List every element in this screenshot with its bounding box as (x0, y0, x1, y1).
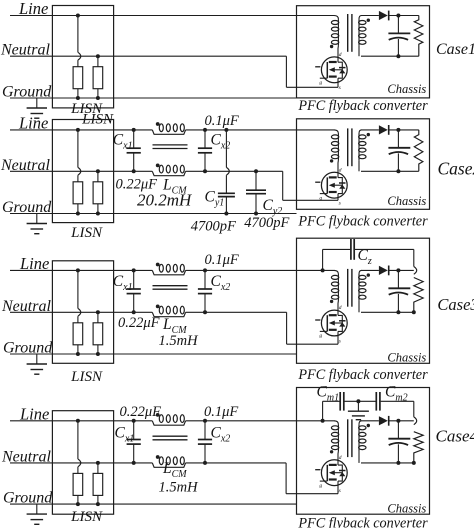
svg-text:d: d (339, 167, 342, 173)
svg-text:Cx1: Cx1 (113, 273, 133, 293)
svg-text:g: g (319, 80, 322, 86)
transformer T primary winding (334, 130, 338, 134)
mosfet body diode (339, 185, 345, 189)
svg-text:Neutral: Neutral (1, 298, 51, 315)
LISN internal wire Line tap (76, 268, 80, 272)
transformer secondary polarity dot (367, 424, 370, 427)
ground symbol (case 3) (36, 354, 38, 364)
transformer T primary winding (334, 270, 338, 274)
mosfet body diode (339, 472, 345, 476)
node output+ (396, 419, 400, 423)
wire crossover hop (Cm2 branch over output rail) (414, 417, 417, 425)
svg-text:Chassis: Chassis (387, 194, 426, 208)
resistor Rload (414, 432, 423, 463)
wire MOSFET source to return (337, 78, 339, 87)
node output- (396, 54, 400, 58)
LCM core (153, 435, 188, 437)
svg-text:PFC flyback converter: PFC flyback converter (297, 98, 428, 114)
transformer core (347, 128, 349, 166)
wire Neutral (case 2) (10, 170, 152, 172)
svg-text:Chassis: Chassis (387, 82, 426, 96)
wire Neutral (case 4) (10, 462, 152, 464)
transformer T secondary winding (359, 130, 362, 134)
capacitor Cx2 (203, 419, 207, 423)
wire output bottom rail (361, 462, 414, 464)
wire Cz left branch (322, 249, 324, 270)
svg-text:PFC flyback converter: PFC flyback converter (297, 515, 428, 528)
ground symbol (case 2) (36, 214, 38, 224)
case 2: PFC flyback converter box (297, 119, 430, 210)
svg-text:Cx1: Cx1 (113, 132, 133, 152)
resistor R1 (LISN) (73, 182, 83, 204)
wire MOSFET source to return (337, 331, 339, 344)
gate drive dash (315, 66, 320, 68)
mosfet gate (326, 177, 328, 193)
capacitor Cx2 (203, 128, 207, 132)
capacitor Cout output electrolytic (397, 130, 399, 148)
wire Cm1-Cm2 link (345, 400, 377, 402)
LISN internal wire Line tap (76, 14, 80, 18)
svg-text:Ground: Ground (2, 199, 52, 216)
svg-text:s: s (339, 338, 341, 344)
resistor Rload (414, 130, 423, 171)
wire Cm2 right branch (381, 400, 414, 402)
capacitor Cx2 (203, 268, 207, 272)
transformer T primary winding (334, 421, 338, 425)
transformer secondary polarity dot (367, 273, 370, 276)
capacitor Cm1 (339, 392, 341, 411)
node Cz primary tap (321, 268, 325, 272)
wire Ground (case 3) (10, 353, 297, 355)
node output- (396, 169, 400, 173)
wire MOSFET source to return (337, 481, 339, 494)
wire Line (case 1) (10, 15, 335, 17)
wire output top rail (389, 269, 414, 271)
common-mode choke LCM bottom winding (152, 312, 185, 316)
capacitor Cm2 (375, 392, 377, 411)
transistor Q MOSFET switch (321, 172, 347, 198)
svg-text:g: g (319, 195, 322, 201)
wire output bottom rail (361, 55, 419, 57)
capacitor Cy2 (254, 169, 258, 173)
node output+ (396, 268, 400, 272)
common-mode choke LCM top winding (152, 421, 185, 425)
wire output top rail (389, 15, 419, 17)
wire Line (case 2) (10, 129, 152, 131)
capacitor Cout output electrolytic (397, 16, 399, 34)
node Cm junction (356, 399, 360, 403)
wire secondary top rail (361, 420, 379, 422)
svg-text:Cy1: Cy1 (205, 189, 225, 209)
resistor R1 (LISN) (73, 323, 83, 345)
svg-text:Case2: Case2 (438, 158, 474, 178)
transformer secondary polarity dot (367, 19, 370, 22)
LCM bottom winding polarity dot (156, 164, 160, 168)
LISN network case 3 (52, 261, 113, 364)
wire Ground (case 1) (10, 97, 297, 99)
wire output top rail (389, 129, 419, 131)
svg-text:s: s (339, 201, 341, 207)
svg-text:Neutral: Neutral (0, 157, 50, 174)
LCM top winding polarity dot (156, 122, 160, 126)
resistor R2 (LISN) (96, 310, 100, 314)
wire output top rail (389, 420, 414, 422)
transformer T secondary winding (359, 421, 362, 425)
transformer primary polarity dot (330, 450, 333, 453)
svg-text:Line: Line (19, 254, 49, 273)
wire Line (case 3) (10, 269, 152, 271)
transformer T secondary winding (359, 270, 362, 274)
resistor R1 (LISN) (73, 473, 83, 495)
LCM core (153, 144, 188, 146)
LISN network case 2 (52, 120, 113, 223)
svg-text:Chassis: Chassis (387, 502, 426, 516)
svg-text:1.5mH: 1.5mH (159, 480, 200, 496)
transformer core (347, 14, 349, 52)
transformer primary polarity dot (330, 300, 333, 303)
svg-text:0.1μF: 0.1μF (205, 252, 239, 268)
svg-text:g: g (319, 483, 322, 489)
svg-text:0.22μF: 0.22μF (120, 404, 162, 420)
resistor R1 (LISN) (73, 67, 83, 89)
svg-text:20.2mH: 20.2mH (137, 190, 193, 209)
svg-text:1.5mH: 1.5mH (159, 333, 200, 349)
svg-text:Cx1: Cx1 (115, 425, 135, 445)
wire Cm1 left branch (322, 401, 324, 421)
ground symbol (case 4) (36, 504, 38, 514)
common-mode choke LCM bottom winding (152, 171, 185, 175)
mosfet internal structure (338, 178, 342, 194)
svg-text:Cx2: Cx2 (211, 273, 231, 293)
wire secondary top rail (361, 269, 379, 271)
transistor Q MOSFET switch (321, 460, 347, 486)
capacitor Cx1 (132, 268, 136, 272)
wire secondary top rail (361, 129, 379, 131)
LISN network case 4 (52, 411, 113, 515)
transistor Q MOSFET switch (321, 57, 347, 83)
node Rload bottom junction (412, 461, 416, 465)
diode D output rectifier (379, 11, 388, 20)
svg-text:d: d (339, 455, 342, 461)
capacitor Cout output electrolytic (397, 421, 399, 439)
svg-text:Ground: Ground (2, 84, 52, 101)
transformer secondary polarity dot (367, 133, 370, 136)
svg-text:0.1μF: 0.1μF (204, 404, 238, 420)
LCM bottom winding polarity dot (156, 455, 160, 459)
transformer primary polarity dot (330, 159, 333, 162)
svg-text:Cm1: Cm1 (317, 384, 340, 404)
wire secondary top rail (361, 15, 379, 17)
diode D output rectifier (379, 125, 388, 134)
mosfet internal structure (338, 465, 342, 481)
LCM top winding polarity dot (156, 413, 160, 417)
svg-text:Case3: Case3 (437, 295, 474, 314)
LCM bottom winding polarity dot (156, 305, 160, 309)
resistor Rload (414, 278, 423, 313)
gate drive dash (315, 469, 320, 471)
svg-text:g: g (319, 333, 322, 339)
capacitor Cz (350, 239, 352, 260)
wire crossover hop (Cz branch over output rail) (414, 267, 417, 275)
diode D output rectifier (379, 266, 388, 275)
svg-text:LISN: LISN (70, 225, 103, 241)
svg-text:LISN: LISN (70, 369, 103, 385)
svg-text:Case1: Case1 (436, 41, 474, 58)
resistor R2 (LISN) (96, 169, 100, 173)
resistor R2 (LISN) (96, 54, 100, 58)
svg-text:d: d (339, 52, 342, 58)
resistor R2 (LISN) (96, 461, 100, 465)
node output+ (396, 128, 400, 132)
svg-text:Line: Line (19, 404, 49, 423)
node output- (396, 310, 400, 314)
LISN internal wire Line tap (76, 419, 80, 423)
case 3: PFC flyback converter box (297, 238, 430, 363)
node output- (396, 461, 400, 465)
resistor Rload (414, 16, 423, 57)
wire Ground (case 4) (10, 503, 297, 505)
wire Neutral (case 1) (10, 55, 286, 57)
svg-text:s: s (339, 488, 341, 494)
svg-text:Chassis: Chassis (387, 351, 426, 365)
svg-text:Line: Line (18, 113, 48, 132)
node Rload bottom junction (412, 310, 416, 314)
chassis ground symbol (Cm junction) (357, 401, 359, 411)
wire MOSFET source to return (337, 194, 339, 201)
wire Neutral feed down (case 2) (282, 171, 284, 200)
ground symbol (case 1) (36, 98, 38, 108)
LISN network case 1 (52, 6, 113, 108)
svg-text:Line: Line (18, 0, 48, 18)
svg-text:0.1μF: 0.1μF (205, 113, 239, 129)
wire Neutral feed down (case 1) (285, 56, 287, 87)
gate drive dash (315, 319, 320, 321)
svg-text:4700pF: 4700pF (244, 215, 289, 231)
wire Neutral feed down (case 3) (286, 312, 288, 344)
svg-text:Neutral: Neutral (1, 448, 51, 465)
svg-text:Cm2: Cm2 (385, 384, 408, 404)
case 1: PFC flyback converter box (297, 6, 430, 98)
transformer T secondary winding (359, 16, 362, 20)
LCM top winding polarity dot (156, 263, 160, 267)
case 4: PFC flyback converter box (297, 388, 430, 515)
svg-text:Case4: Case4 (436, 426, 474, 445)
wire Neutral (case 3) (10, 311, 152, 313)
svg-text:PFC flyback converter: PFC flyback converter (297, 214, 428, 230)
mosfet gate (326, 62, 328, 78)
common-mode choke LCM top winding (152, 270, 185, 274)
transistor Q MOSFET switch (321, 310, 347, 336)
transformer T primary winding (334, 16, 338, 20)
svg-text:4700pF: 4700pF (191, 219, 236, 235)
mosfet body diode (339, 322, 345, 326)
wire Ground (case 2) (10, 213, 297, 215)
transformer primary polarity dot (330, 45, 333, 48)
common-mode choke LCM bottom winding (152, 463, 185, 467)
svg-text:s: s (339, 85, 341, 91)
wire Neutral feed down (case 4) (285, 463, 287, 494)
svg-text:PFC flyback converter: PFC flyback converter (297, 367, 428, 383)
capacitor Cout output electrolytic (397, 270, 399, 288)
svg-text:d: d (339, 305, 342, 311)
svg-text:Cx2: Cx2 (211, 132, 231, 152)
wire output bottom rail (361, 170, 419, 172)
node Cm1 primary tap (321, 419, 325, 423)
node output+ (396, 14, 400, 18)
wire Line (case 4) (10, 420, 152, 422)
mosfet internal structure (338, 315, 342, 331)
transformer core (347, 269, 349, 307)
capacitor Cx1 (132, 419, 136, 423)
diode D output rectifier (379, 416, 388, 425)
wire output bottom rail (361, 311, 414, 313)
mosfet gate (326, 315, 328, 331)
LCM core (153, 285, 188, 287)
svg-text:Neutral: Neutral (0, 42, 50, 59)
gate drive dash (315, 181, 320, 183)
svg-text:Cx2: Cx2 (211, 425, 231, 445)
capacitor Cx1 (132, 128, 136, 132)
capacitor Cy1 (224, 128, 228, 132)
svg-text:LISN: LISN (70, 509, 103, 525)
svg-text:Ground: Ground (3, 340, 53, 357)
transformer core (347, 419, 349, 457)
mosfet gate (326, 465, 328, 481)
common-mode choke LCM top winding (152, 130, 185, 134)
svg-text:0.22μF: 0.22μF (118, 315, 160, 331)
svg-text:Ground: Ground (3, 490, 53, 507)
wire Cz right branch (355, 248, 414, 250)
LISN internal wire Line tap (76, 128, 80, 132)
mosfet internal structure (338, 62, 342, 78)
mosfet body diode (339, 69, 345, 73)
